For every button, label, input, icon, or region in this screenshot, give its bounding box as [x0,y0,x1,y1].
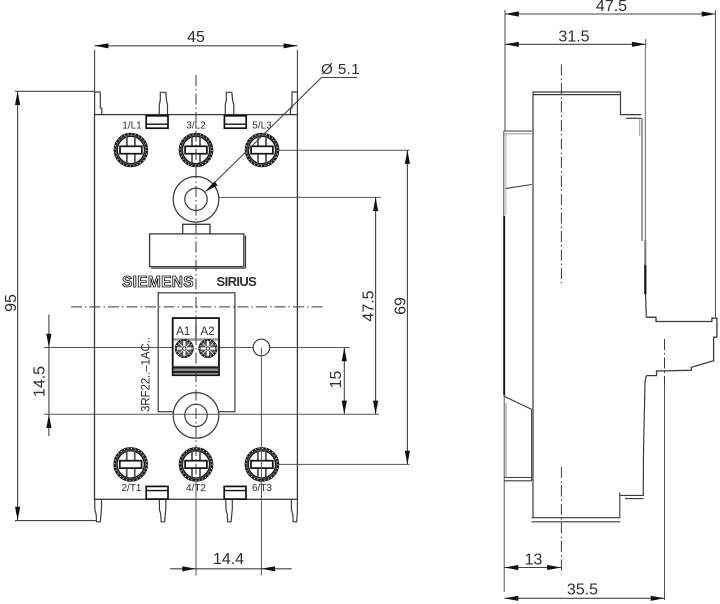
top-left block [504,130,532,132]
coil screw A2 [200,340,217,357]
top terminal funnel rect 1 [146,116,168,128]
svg-text:47.5: 47.5 [596,0,627,15]
inner module rect [158,293,235,412]
svg-text:2/T1: 2/T1 [121,483,141,494]
dimension 95 [15,91,97,520]
svg-text:35.5: 35.5 [567,582,598,599]
svg-text:45: 45 [187,29,205,46]
dimension 31.5 (side) [505,43,646,45]
dimension 47.5 [375,197,377,414]
terminal screw 6/T3 [246,448,278,480]
dimension 45 [95,46,298,92]
body outline [95,115,298,500]
horizontal center dash-dot line [71,306,323,308]
svg-text:SIEMENS: SIEMENS [122,274,194,291]
upper mounting hole [173,177,219,223]
svg-text:13: 13 [525,552,543,569]
bottom terminal funnel rect 2 [224,486,246,499]
terminal screw 5/L3 [246,134,278,166]
bottom-left block [505,397,532,410]
svg-text:1/L1: 1/L1 [122,121,142,132]
separator band [174,338,219,341]
dimension 15 [343,348,345,415]
top terminal funnel rect 2 [224,116,246,128]
left face line [503,131,505,216]
terminal screw 3/L2 [180,134,212,166]
terminal block center line / extension [664,339,666,385]
svg-text:31.5: 31.5 [558,29,589,46]
svg-text:A1: A1 [176,326,190,338]
side right edge outer line with dark segment [644,48,646,240]
side body top cap [533,92,641,518]
svg-text:Ø 5.1: Ø 5.1 [321,61,360,78]
side center dash-dot line [560,65,562,284]
dimension 69 [406,150,408,464]
top mounting tab 1 [95,92,102,115]
bottom mounting tab 1 [95,499,102,522]
dimension 14.4 [170,568,292,570]
dimension 13 (side) [505,567,562,569]
bottom mounting tab 4 [291,499,297,522]
extension line A1 screw row left [44,347,176,349]
center vertical dash-dot line [195,75,197,575]
svg-text:15: 15 [328,371,345,389]
pedestal below hole [183,224,210,234]
terminal screw 4/T2 [180,448,212,480]
small reference circle [253,339,270,356]
coil screw A1 [176,340,193,357]
svg-text:14.4: 14.4 [213,551,244,568]
terminal screw 2/T1 [115,448,147,480]
dimension 47.5 (side) [505,13,716,15]
lower mounting hole [173,393,219,439]
extension line top screws row (69 dim) [278,149,410,151]
striped bottom band [174,366,219,375]
svg-text:5/L3: 5/L3 [252,121,272,132]
svg-text:95: 95 [3,294,20,312]
terminal screw 1/L1 [115,134,147,166]
terminal block protrusion [646,317,717,375]
bottom terminal funnel rect 1 [146,486,168,499]
bottom mounting tab 2 [159,499,166,522]
dimension 14.5 [48,315,50,437]
svg-text:3RF22..–1AC..: 3RF22..–1AC.. [141,337,153,412]
lower right step [620,493,644,518]
leader line from small circle down to 14.4 dim [260,348,262,576]
svg-text:69: 69 [393,297,410,315]
extension 4/T2 center down [195,480,197,575]
dimension 35.5 (side) [505,597,665,599]
A1/A2 terminal block [173,318,219,375]
top mounting tab 3 [225,92,234,115]
extension line small circle row right [217,347,350,349]
svg-text:14.5: 14.5 [32,366,49,397]
top mounting tab 2 [159,92,167,115]
svg-text:47.5: 47.5 [361,290,378,321]
top mounting tab 4 [291,92,298,115]
svg-text:SIRIUS: SIRIUS [217,274,258,289]
label plate [150,234,244,267]
bottom cap [532,517,621,519]
extension line upper hole center (47.5 dim) [218,196,381,198]
bottom mounting tab 3 [226,499,233,522]
extension line lower hole center [44,413,379,415]
extension line bottom screws row [278,463,409,465]
svg-text:A2: A2 [200,326,214,338]
side right edge upper double [639,118,641,136]
svg-text:6/T3: 6/T3 [252,483,272,494]
side right edge lower [643,376,646,496]
